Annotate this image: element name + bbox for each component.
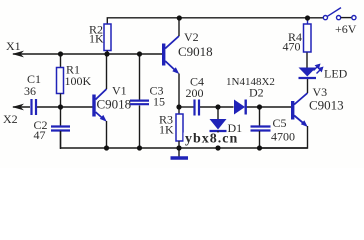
wire V1 collector (106, 54, 108, 89)
svg-text:X2: X2 (3, 112, 18, 126)
wire V3 emitter (260, 126, 308, 148)
resistor R1 (60, 54, 62, 68)
wire top rail (107, 18, 323, 24)
resistor R4 (307, 18, 309, 25)
transistor V1 (92, 89, 107, 122)
svg-text:ybx8.cn: ybx8.cn (185, 132, 238, 147)
wire V1 emitter (106, 121, 108, 148)
capacitor C1 (32, 99, 37, 115)
diode D2 (234, 100, 245, 115)
svg-text:X1: X1 (6, 39, 21, 53)
svg-text:D2: D2 (249, 86, 264, 100)
wire X1 line (13, 53, 162, 55)
capacitor C2 (60, 107, 62, 126)
terminal X1 arrow (12, 51, 24, 58)
terminal X2 arrow (12, 104, 24, 111)
wire V2 collector (178, 18, 180, 37)
svg-text:470: 470 (283, 40, 301, 54)
watermark ybx8.cn (184, 133, 251, 146)
svg-text:4700: 4700 (271, 130, 295, 144)
svg-text:C9018: C9018 (178, 44, 213, 59)
svg-text:47: 47 (34, 128, 46, 142)
transistor V2 (162, 36, 179, 74)
svg-text:36: 36 (24, 84, 36, 98)
switch S (323, 8, 356, 20)
svg-text:V1: V1 (112, 84, 127, 98)
resistor R2 (104, 24, 111, 51)
resistor R3 (178, 107, 180, 114)
svg-text:1K: 1K (159, 123, 174, 137)
diode D1 (217, 107, 219, 119)
capacitor C3 (139, 54, 141, 100)
svg-text:200: 200 (186, 86, 204, 100)
capacitor C4 (195, 100, 200, 116)
wire V2 emitter (178, 74, 180, 108)
svg-text:V2: V2 (184, 30, 199, 44)
LED (299, 68, 317, 77)
svg-text:C9018: C9018 (97, 97, 132, 112)
svg-text:C9013: C9013 (309, 98, 344, 113)
svg-text:15: 15 (153, 95, 165, 109)
svg-text:C5: C5 (273, 116, 287, 130)
transistor V3 (291, 93, 308, 127)
svg-text:1K: 1K (89, 32, 104, 46)
svg-text:100K: 100K (65, 74, 92, 88)
wire X2 line (13, 106, 30, 108)
wire middle line (179, 106, 194, 108)
wire V3 collector (307, 79, 309, 94)
wire bottom rail (61, 131, 308, 148)
capacitor C5 (259, 107, 261, 126)
svg-text:LED: LED (324, 67, 348, 81)
ground (178, 148, 180, 157)
svg-text:+6V: +6V (335, 22, 357, 36)
